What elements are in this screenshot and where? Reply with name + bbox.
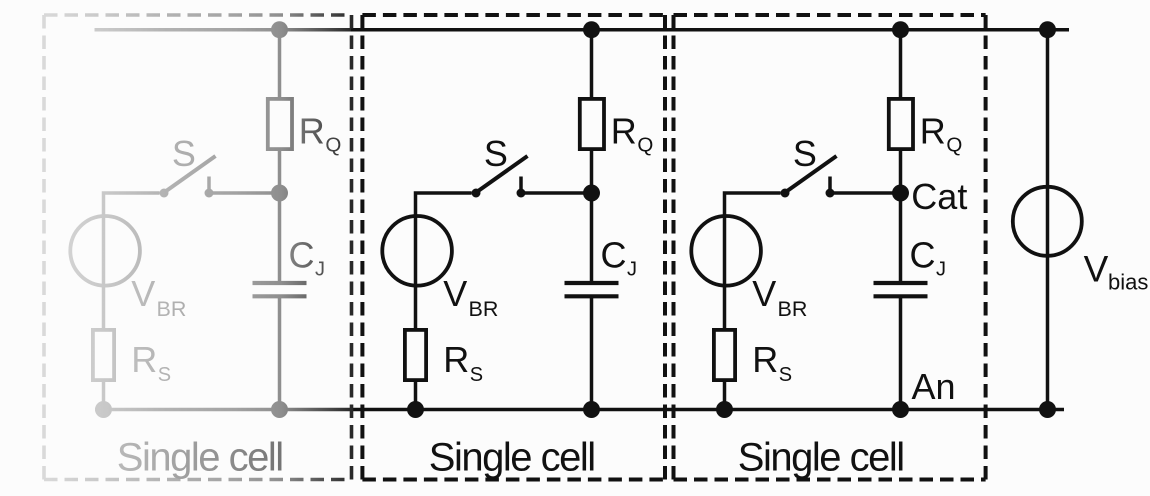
svg-text:V: V bbox=[131, 273, 155, 314]
wire top rail to RQ (cell 2) bbox=[899, 30, 903, 99]
wire top rail to RQ (ghost cell) bbox=[278, 30, 282, 99]
svg-text:Q: Q bbox=[946, 134, 962, 157]
svg-text:V: V bbox=[443, 273, 467, 314]
junction dot bottom rail (Vbias) bbox=[1039, 401, 1056, 418]
resistor RS (ghost cell) bbox=[93, 330, 114, 380]
bottom rail (anode bus) bbox=[351, 408, 1064, 412]
junction dot bottom rail left (ghost cell) bbox=[95, 401, 112, 418]
svg-text:Q: Q bbox=[325, 134, 341, 157]
wire switch to mid node (ghost cell) bbox=[209, 191, 280, 195]
wire mid node to CJ (cell 1) bbox=[590, 193, 594, 283]
wire Vbias branch vertical bbox=[1046, 30, 1050, 410]
switch S (cell 2): right contact tick bbox=[828, 177, 832, 190]
wire top rail to RQ (cell 1) bbox=[590, 30, 594, 99]
junction dot bottom rail right (ghost cell) bbox=[271, 401, 288, 418]
switch S (ghost cell): right contact dot bbox=[205, 189, 214, 198]
wire switch to mid node (cell 1) bbox=[521, 191, 592, 195]
svg-text:Single cell: Single cell bbox=[429, 436, 595, 480]
capacitor CJ bottom plate (cell 1) bbox=[565, 294, 619, 298]
resistor RS (cell 1) bbox=[405, 330, 426, 380]
switch S (ghost cell): left contact dot bbox=[160, 189, 169, 198]
dashed box "ghost cell" bbox=[44, 15, 352, 480]
switch S (cell 1): right contact dot bbox=[517, 189, 526, 198]
switch S (cell 2): wire from left branch bbox=[725, 193, 781, 328]
wire RS to bottom rail (ghost cell) bbox=[102, 380, 106, 410]
svg-text:Single cell: Single cell bbox=[117, 436, 283, 480]
svg-text:R: R bbox=[920, 111, 946, 152]
wire RQ to mid node (cell 1) bbox=[590, 149, 594, 193]
wire mid node to CJ (ghost cell) bbox=[278, 193, 282, 283]
switch S (cell 2): left contact dot bbox=[781, 189, 790, 198]
svg-text:S: S bbox=[158, 364, 171, 386]
switch S (ghost cell): wire from left branch bbox=[104, 193, 160, 328]
junction dot top rail (cell 1) bbox=[583, 21, 600, 38]
svg-text:Cat: Cat bbox=[911, 176, 967, 217]
voltage source Vbias bbox=[1013, 187, 1082, 256]
wire mid node to CJ (cell 2) bbox=[899, 193, 903, 283]
dashed box "cell 1" bbox=[362, 15, 665, 480]
junction dot bottom rail left (cell 2) bbox=[716, 401, 733, 418]
voltage source VBR (ghost cell) bbox=[70, 216, 140, 286]
wire CJ to bottom rail (cell 2) bbox=[899, 296, 903, 409]
junction dot mid node (cell 2) bbox=[892, 185, 909, 202]
junction dot mid node (cell 1) bbox=[583, 185, 600, 202]
svg-text:BR: BR bbox=[469, 297, 499, 321]
switch S (cell 1): blade bbox=[476, 156, 528, 193]
capacitor CJ bottom plate (cell 2) bbox=[874, 294, 928, 298]
top rail (cathode bus) bbox=[351, 28, 1069, 32]
svg-text:V: V bbox=[1084, 249, 1109, 290]
svg-text:Q: Q bbox=[637, 134, 653, 157]
svg-text:Single cell: Single cell bbox=[738, 436, 904, 480]
svg-text:J: J bbox=[627, 259, 637, 281]
switch S (cell 1): right contact tick bbox=[519, 177, 523, 190]
svg-text:C: C bbox=[289, 235, 315, 276]
capacitor CJ top plate (cell 2) bbox=[874, 281, 928, 285]
ghost bottom rail segment (faded) bbox=[95, 408, 353, 412]
wire CJ to bottom rail (ghost cell) bbox=[278, 296, 282, 409]
capacitor CJ top plate (ghost cell) bbox=[253, 281, 307, 285]
switch S (ghost cell): blade bbox=[164, 156, 216, 193]
svg-text:R: R bbox=[299, 111, 325, 152]
wire RS to bottom rail (cell 2) bbox=[723, 380, 727, 410]
resistor RQ (ghost cell) bbox=[268, 99, 292, 149]
svg-text:S: S bbox=[172, 133, 196, 174]
dashed box "cell 2" bbox=[674, 15, 986, 480]
svg-text:S: S bbox=[779, 364, 792, 386]
resistor RQ (cell 1) bbox=[580, 99, 604, 149]
svg-text:R: R bbox=[611, 111, 637, 152]
junction dot bottom rail right (cell 1) bbox=[583, 401, 600, 418]
wire RQ to mid node (ghost cell) bbox=[278, 149, 282, 193]
capacitor CJ top plate (cell 1) bbox=[565, 281, 619, 285]
junction dot top rail (ghost cell) bbox=[271, 21, 288, 38]
voltage source VBR (cell 2) bbox=[691, 216, 761, 286]
svg-text:V: V bbox=[752, 273, 776, 314]
junction dot bottom rail left (cell 1) bbox=[407, 401, 424, 418]
svg-text:An: An bbox=[912, 366, 956, 407]
wire RS to bottom rail (cell 1) bbox=[414, 380, 418, 410]
svg-text:S: S bbox=[484, 133, 508, 174]
ghost top rail segment (faded) bbox=[95, 28, 354, 32]
svg-text:J: J bbox=[936, 259, 946, 281]
wire RQ to mid node (cell 2) bbox=[899, 149, 903, 193]
switch S (cell 1): left contact dot bbox=[472, 189, 481, 198]
svg-text:bias: bias bbox=[1108, 269, 1148, 294]
svg-text:R: R bbox=[752, 339, 778, 380]
svg-text:S: S bbox=[793, 133, 817, 174]
svg-text:C: C bbox=[601, 235, 627, 276]
svg-text:BR: BR bbox=[157, 297, 187, 321]
junction dot mid node (ghost cell) bbox=[271, 185, 288, 202]
wire CJ to bottom rail (cell 1) bbox=[590, 296, 594, 409]
switch S (cell 2): right contact dot bbox=[826, 189, 835, 198]
svg-text:C: C bbox=[910, 235, 936, 276]
switch S (ghost cell): right contact tick bbox=[207, 177, 211, 190]
junction dot top rail (Vbias) bbox=[1039, 21, 1056, 38]
svg-text:R: R bbox=[131, 339, 157, 380]
svg-text:J: J bbox=[315, 259, 325, 281]
capacitor CJ bottom plate (ghost cell) bbox=[253, 294, 307, 298]
junction dot top rail (cell 2) bbox=[892, 21, 909, 38]
junction dot bottom rail right (cell 2) bbox=[892, 401, 909, 418]
switch S (cell 1): wire from left branch bbox=[416, 193, 472, 328]
resistor RQ (cell 2) bbox=[889, 99, 913, 149]
wire switch to mid node (cell 2) bbox=[830, 191, 901, 195]
voltage source VBR (cell 1) bbox=[382, 216, 452, 286]
resistor RS (cell 2) bbox=[714, 330, 735, 380]
switch S (cell 2): blade bbox=[785, 156, 837, 193]
svg-text:R: R bbox=[443, 339, 469, 380]
svg-text:BR: BR bbox=[778, 297, 808, 321]
svg-text:S: S bbox=[470, 364, 483, 386]
